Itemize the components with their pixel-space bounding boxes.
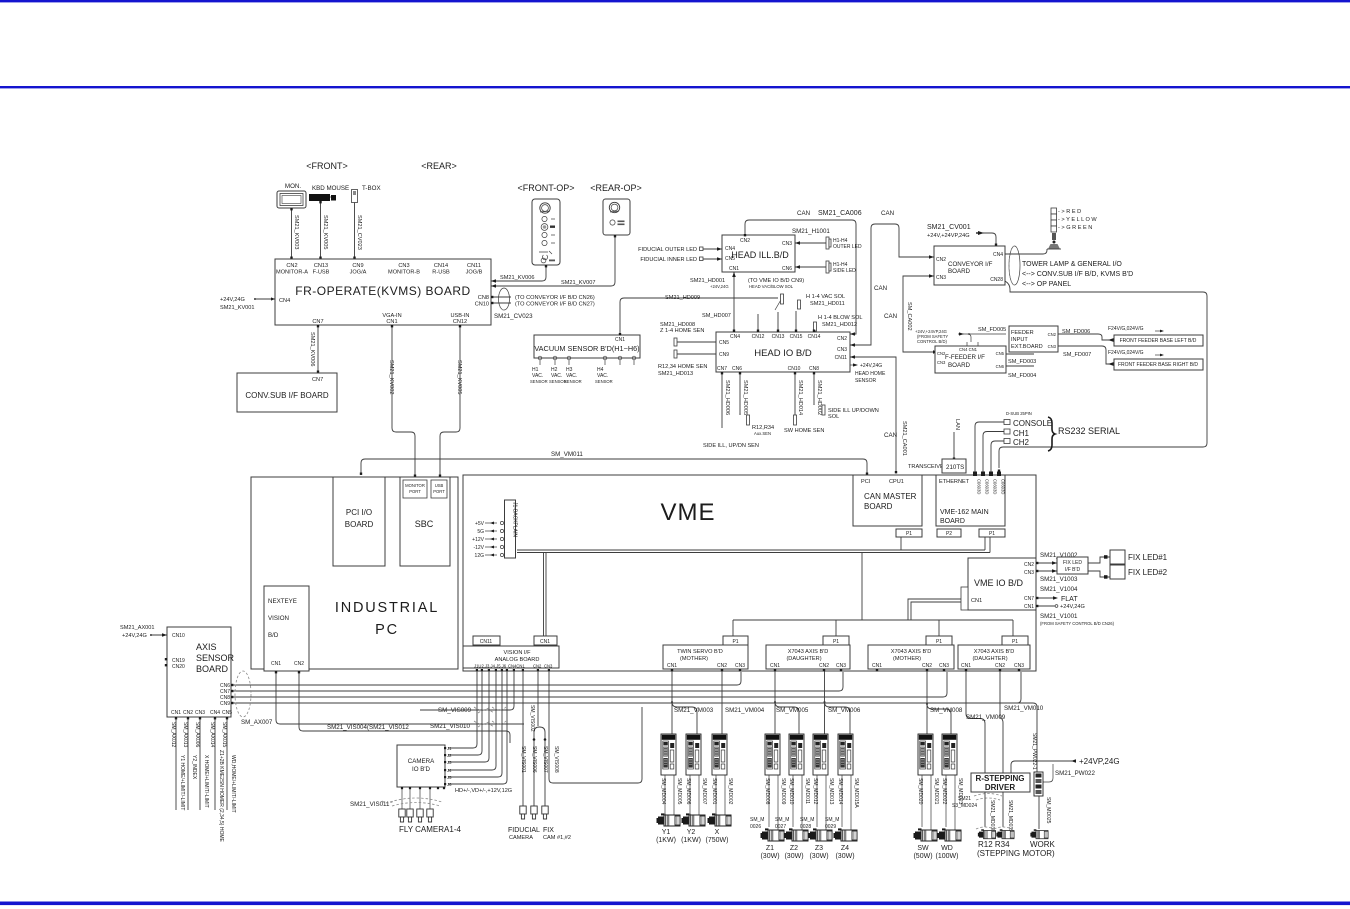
wire FRONT-OP to board (SM21_KV006) bbox=[491, 265, 546, 281]
wire conveyor CN3 down to F-FEEDER CN2 bbox=[903, 276, 938, 352]
svg-text:CN7: CN7 bbox=[312, 377, 323, 383]
svg-text:CN1: CN1 bbox=[386, 319, 397, 325]
svg-text:SENSOR: SENSOR bbox=[530, 379, 548, 384]
svg-text:CN2: CN2 bbox=[294, 661, 304, 667]
svg-text:PORT: PORT bbox=[433, 489, 445, 494]
svg-text:CN5: CN5 bbox=[222, 710, 232, 716]
svg-text:CAN: CAN bbox=[884, 432, 897, 439]
vision pins bottom bbox=[476, 669, 550, 671]
svg-text:SM21_HD013: SM21_HD013 bbox=[658, 371, 693, 377]
svg-text:SENSOR: SENSOR bbox=[564, 379, 582, 384]
panel REAR-OP bbox=[603, 199, 630, 235]
svg-text:SM_FD006: SM_FD006 bbox=[1062, 329, 1090, 335]
svg-text:(30W): (30W) bbox=[784, 853, 803, 860]
svg-text:SM_MD022: SM_MD022 bbox=[941, 778, 947, 805]
svg-text:J4: J4 bbox=[447, 768, 452, 773]
svg-text:+24V,24G: +24V,24G bbox=[220, 297, 245, 303]
connector work vertical bbox=[1034, 772, 1043, 796]
svg-text:CAM #1,#2: CAM #1,#2 bbox=[543, 835, 571, 841]
svg-text:SM21_HD006: SM21_HD006 bbox=[724, 380, 730, 415]
svg-text:SM_VIS009: SM_VIS009 bbox=[438, 707, 472, 714]
svg-text:SM_MD005: SM_MD005 bbox=[676, 778, 682, 805]
svg-text:SM_MD013: SM_MD013 bbox=[828, 778, 834, 805]
svg-text:CN10: CN10 bbox=[172, 633, 185, 639]
svg-text:BOARD: BOARD bbox=[948, 362, 971, 369]
svg-text:INPUT: INPUT bbox=[1011, 337, 1028, 343]
svg-text:FRONT FEEDER BASE RIGHT B/D: FRONT FEEDER BASE RIGHT B/D bbox=[1118, 362, 1198, 368]
wire X7043d1 CN1 to Z1 bbox=[774, 672, 776, 735]
bundle ellipse fly bbox=[390, 798, 442, 806]
svg-text:0028: 0028 bbox=[800, 824, 811, 830]
connector R12,34 home bbox=[674, 350, 677, 358]
connectors ethernet x4 bbox=[973, 472, 977, 477]
board VME-162 MAIN bbox=[936, 475, 1005, 526]
connector H1-H4 SIDE LED bbox=[826, 261, 829, 273]
svg-text:J1U2,J3,J4,J5,J6: J1U2,J3,J4,J5,J6 bbox=[474, 664, 507, 669]
riser bus down to P1 row bbox=[861, 553, 863, 621]
svg-text:P1: P1 bbox=[936, 639, 942, 645]
svg-text:SM_CA002: SM_CA002 bbox=[906, 302, 912, 331]
svg-text:SM21_KV007: SM21_KV007 bbox=[561, 280, 596, 286]
port MONITOR PORT bbox=[403, 480, 427, 498]
svg-text:(30W): (30W) bbox=[809, 853, 828, 860]
wire F-FEEDER top pins bbox=[967, 342, 978, 346]
motor SW bbox=[914, 828, 938, 841]
svg-text:CN4: CN4 bbox=[993, 252, 1003, 258]
svg-text:<--> OP PANEL: <--> OP PANEL bbox=[1022, 281, 1071, 288]
svg-text:CN11: CN11 bbox=[467, 263, 481, 269]
board FR-OPERATE(KVMS) bbox=[275, 259, 491, 325]
svg-text:F-USB: F-USB bbox=[313, 270, 330, 276]
svg-text:CN3: CN3 bbox=[195, 710, 205, 716]
board R-STEPPING DRIVER bbox=[971, 773, 1030, 792]
svg-text:<REAR-OP>: <REAR-OP> bbox=[590, 183, 642, 193]
svg-text:X7043 AXIS B'D: X7043 AXIS B'D bbox=[974, 649, 1015, 655]
driver Z1 bbox=[765, 734, 780, 775]
svg-text:CN2: CN2 bbox=[937, 351, 946, 356]
svg-text:CN2: CN2 bbox=[183, 710, 193, 716]
svg-text:SM_FD003: SM_FD003 bbox=[1008, 359, 1036, 365]
svg-text:NEXTEYE: NEXTEYE bbox=[268, 598, 297, 605]
backplane J1-BACKPLAIN bbox=[505, 500, 516, 558]
board TWIN SERVO (MOTHER) bbox=[663, 645, 748, 669]
svg-text:VME IO B/D: VME IO B/D bbox=[974, 578, 1024, 588]
svg-text:SM_HD007: SM_HD007 bbox=[702, 313, 731, 319]
connector CN11 box bbox=[473, 636, 500, 645]
connector P2 bbox=[937, 529, 961, 537]
svg-text:(MOTHER): (MOTHER) bbox=[893, 656, 921, 662]
svg-text:X HOME/+LIMIT/-LIMIT: X HOME/+LIMIT/-LIMIT bbox=[203, 755, 209, 808]
svg-text:CN6: CN6 bbox=[782, 266, 792, 272]
svg-text:SM_FD007: SM_FD007 bbox=[1063, 352, 1091, 358]
wire KBD to CN13 bbox=[320, 201, 322, 259]
wire CN8 to conveyor bbox=[491, 296, 511, 298]
wire branch to WD drv bbox=[927, 704, 951, 734]
svg-text:CN7: CN7 bbox=[1024, 596, 1034, 602]
connector H1-4 BLOW SOL bbox=[814, 322, 817, 331]
svg-text:SM21_CV023: SM21_CV023 bbox=[356, 215, 362, 250]
driver Z3 bbox=[813, 734, 828, 775]
label +24V,24G HEAD HOME SENSOR bbox=[850, 364, 854, 366]
svg-text:SOL: SOL bbox=[828, 414, 839, 420]
svg-text:CN4: CN4 bbox=[210, 710, 220, 716]
svg-text:J6: J6 bbox=[447, 782, 452, 787]
svg-text:INDUSTRIAL: INDUSTRIAL bbox=[335, 600, 439, 616]
wire CN10 to conveyor bbox=[491, 302, 511, 304]
svg-text:CN3: CN3 bbox=[936, 275, 946, 281]
svg-text:CN14: CN14 bbox=[808, 334, 821, 340]
svg-text:CN15: CN15 bbox=[790, 334, 803, 340]
svg-text:SM_MD014: SM_MD014 bbox=[837, 778, 843, 805]
svg-text:F-FEEDER I/F: F-FEEDER I/F bbox=[945, 354, 985, 361]
svg-text:SM21: SM21 bbox=[958, 796, 971, 802]
motor R12 bbox=[978, 829, 996, 838]
wire VGA-IN down to MONITOR PORT bbox=[392, 325, 415, 477]
wire branch to Z2 bbox=[775, 702, 799, 734]
svg-text:H 1-4 BLOW SOL: H 1-4 BLOW SOL bbox=[818, 315, 862, 321]
svg-text:P1: P1 bbox=[1012, 639, 1018, 645]
bundle ellipses r-stepping bbox=[974, 794, 1002, 801]
board VACUUM SENSOR B'D bbox=[534, 335, 640, 358]
svg-text:SW HOME SEN: SW HOME SEN bbox=[784, 428, 824, 434]
wires fix cams down bbox=[534, 740, 545, 806]
brace RS232 bbox=[1048, 417, 1055, 451]
svg-text:SM21_HD012: SM21_HD012 bbox=[822, 322, 857, 328]
svg-text:CN6: CN6 bbox=[996, 364, 1005, 369]
svg-text:+24VP,24G: +24VP,24G bbox=[1079, 757, 1120, 766]
svg-text:JOG/A: JOG/A bbox=[350, 270, 367, 276]
svg-text:CONTROL B/D): CONTROL B/D) bbox=[917, 339, 947, 344]
svg-text:Z1: Z1 bbox=[766, 845, 774, 852]
svg-text:CN4CN1: CN4CN1 bbox=[508, 664, 525, 669]
svg-text:CAMERA: CAMERA bbox=[408, 758, 435, 765]
motor WORK bbox=[1030, 829, 1048, 838]
board VME IO B/D bbox=[968, 558, 1036, 610]
svg-text:-12V: -12V bbox=[473, 545, 484, 551]
bus P1 row horizontal bbox=[733, 619, 1013, 621]
svg-text:SM21_VM010: SM21_VM010 bbox=[1004, 705, 1044, 712]
pc INDUSTRIAL PC box bbox=[251, 477, 458, 669]
svg-text:CN3: CN3 bbox=[735, 663, 745, 669]
wire CN6 to side LED conn bbox=[795, 266, 826, 268]
svg-text:CAMERA: CAMERA bbox=[509, 835, 533, 841]
svg-text:P1: P1 bbox=[906, 531, 912, 537]
svg-text:SM_VM008: SM_VM008 bbox=[930, 707, 963, 714]
rack VME outer box bbox=[463, 475, 1036, 671]
svg-text:CN3: CN3 bbox=[939, 663, 949, 669]
wire X7043d1 CN2 to Z3 bbox=[824, 672, 826, 735]
svg-text:FIDUCIAL INNER LED: FIDUCIAL INNER LED bbox=[640, 257, 697, 263]
board FIX LED I/F B'D bbox=[1057, 557, 1088, 574]
svg-text:C0603D: C0603D bbox=[985, 479, 990, 494]
svg-text:AXIS: AXIS bbox=[196, 642, 217, 652]
svg-text:VACUUM SENSOR B'D(H1~H6): VACUUM SENSOR B'D(H1~H6) bbox=[534, 344, 639, 353]
svg-text:0026: 0026 bbox=[750, 824, 761, 830]
svg-text:SM_VIS001: SM_VIS001 bbox=[520, 746, 526, 773]
svg-text:LAN: LAN bbox=[954, 419, 960, 430]
svg-text:J1: J1 bbox=[447, 746, 452, 751]
wire CAN loop HEAD ILL CN2 to HEAD IO CN2 bbox=[745, 220, 856, 334]
svg-text:MONITOR-A: MONITOR-A bbox=[276, 270, 308, 276]
motor Y1 bbox=[657, 813, 681, 826]
vacuum sensor pins bbox=[538, 356, 636, 365]
svg-text:<FRONT>: <FRONT> bbox=[306, 161, 348, 171]
svg-text:SM_MD001: SM_MD001 bbox=[711, 778, 717, 805]
page frame top blue line bbox=[0, 0, 1350, 2]
wire branch to Z4 bbox=[825, 702, 851, 734]
connector SIDE ILL sol bbox=[822, 405, 825, 415]
svg-text:FEEDER: FEEDER bbox=[1011, 330, 1034, 336]
svg-text:0027: 0027 bbox=[775, 824, 786, 830]
board HEAD ILL.B/D bbox=[722, 235, 795, 272]
connector H1-4 VAC SOL bbox=[798, 300, 801, 309]
svg-text:CN1: CN1 bbox=[770, 663, 780, 669]
panel FRONT-OP bbox=[532, 199, 560, 265]
svg-text:SM21_HD009: SM21_HD009 bbox=[665, 295, 700, 301]
svg-text:SW: SW bbox=[917, 845, 929, 852]
svg-text:PCI I/O: PCI I/O bbox=[346, 508, 372, 517]
svg-text:SIDE ILL, UP/DN SEN: SIDE ILL, UP/DN SEN bbox=[703, 443, 759, 449]
svg-text:SM_M: SM_M bbox=[800, 817, 814, 823]
svg-text:+24V,24G: +24V,24G bbox=[122, 633, 147, 639]
wire CN7 down SM21_HD006 bbox=[721, 372, 723, 428]
svg-text:Z 1-4 HOME SEN: Z 1-4 HOME SEN bbox=[660, 328, 704, 334]
camera right pins J1-J6 bbox=[444, 746, 452, 787]
wire USB-IN down to USB PORT bbox=[440, 325, 460, 477]
board AXIS SENSOR bbox=[167, 627, 231, 717]
wire CONSOLE to ethernet bbox=[975, 422, 1004, 472]
driver Y1 bbox=[661, 734, 676, 775]
svg-text:SM_MD011: SM_MD011 bbox=[804, 778, 810, 804]
svg-text:SM21_PW022: SM21_PW022 bbox=[1055, 770, 1095, 777]
riser P1 vme162 to bus bbox=[985, 537, 990, 553]
svg-text:JOG/B: JOG/B bbox=[466, 270, 483, 276]
svg-text:SM_FD004: SM_FD004 bbox=[1008, 373, 1036, 379]
wire work down bbox=[1038, 796, 1040, 829]
svg-text:TWIN SERVO B'D: TWIN SERVO B'D bbox=[677, 649, 723, 655]
svg-text:CN3: CN3 bbox=[836, 663, 846, 669]
svg-text:SM_FD005: SM_FD005 bbox=[978, 327, 1006, 333]
wire CN3 to fix led bd bbox=[1036, 570, 1057, 572]
svg-text:ETHERNET: ETHERNET bbox=[939, 479, 970, 485]
motor X bbox=[708, 813, 732, 826]
wire NEXTEYE CN1 right bbox=[276, 671, 524, 724]
svg-text:Y1: Y1 bbox=[662, 829, 671, 836]
motor Y2 bbox=[682, 813, 706, 826]
svg-text:CN10: CN10 bbox=[788, 366, 801, 372]
wire CN10 down SM21_HD014 bbox=[794, 372, 796, 415]
connector CN1 box bbox=[534, 636, 557, 645]
svg-text:CN5: CN5 bbox=[725, 256, 735, 262]
svg-text:CN28: CN28 bbox=[990, 277, 1003, 283]
svg-text:SM21_VIS010: SM21_VIS010 bbox=[430, 723, 470, 730]
wire HEAD ILL CN1 to HEAD IO CN4 bbox=[733, 272, 735, 332]
wire riser to work connector bbox=[1017, 703, 1037, 772]
wire NEXTEYE CN2 right bbox=[299, 671, 510, 743]
wire EXT CN3 to front feeder right bbox=[1058, 346, 1114, 364]
svg-text:(DAUGHTER): (DAUGHTER) bbox=[786, 656, 821, 662]
board CAMERA IO B'D bbox=[397, 745, 445, 787]
wire CAN trunk loop2 conveyor bbox=[850, 224, 934, 345]
svg-text:HEAD VAC/BLOW SOL: HEAD VAC/BLOW SOL bbox=[749, 284, 794, 289]
svg-text:CN4: CN4 bbox=[725, 246, 735, 252]
svg-text:SIDE LED: SIDE LED bbox=[833, 268, 856, 274]
svg-text:+12V: +12V bbox=[472, 537, 484, 543]
svg-text:CN11: CN11 bbox=[480, 639, 493, 645]
board CONV.SUB I/F bbox=[237, 373, 337, 412]
wire CN13 up to sol bbox=[777, 312, 779, 332]
backplane supply pins bbox=[472, 521, 503, 559]
svg-text:X7043 AXIS B'D: X7043 AXIS B'D bbox=[891, 649, 932, 655]
svg-text:PCI: PCI bbox=[861, 479, 871, 485]
svg-text:RS232 SERIAL: RS232 SERIAL bbox=[1058, 426, 1120, 436]
bundle ellipses motors r bbox=[976, 827, 1012, 829]
svg-text:(DAUGHTER): (DAUGHTER) bbox=[972, 656, 1007, 662]
svg-text:(TO CONVEYOR I/F B/D CN26): (TO CONVEYOR I/F B/D CN26) bbox=[515, 295, 595, 301]
wire REAR-OP to board (SM21_KV007) bbox=[491, 235, 615, 286]
svg-text:(FROM SAFETY CONTROL B/D CN26): (FROM SAFETY CONTROL B/D CN26) bbox=[1040, 621, 1115, 626]
connector CH2 bbox=[1004, 439, 1010, 444]
svg-text:PORT: PORT bbox=[409, 489, 421, 494]
svg-text:HD+/-,VD+/-,+12V,12G: HD+/-,VD+/-,+12V,12G bbox=[455, 788, 512, 794]
board HEAD IO B/D bbox=[716, 332, 850, 372]
svg-text:<--> CONV.SUB I/F B/D, KVMS B': <--> CONV.SUB I/F B/D, KVMS B'D bbox=[1022, 271, 1133, 278]
svg-text:SM21_H1001: SM21_H1001 bbox=[792, 228, 830, 235]
svg-text:SM21_HD002: SM21_HD002 bbox=[816, 380, 822, 415]
wire b4 CN2 to SW drv bbox=[926, 672, 928, 735]
svg-text:WD,HOME/+LIMIT/-LIMIT: WD,HOME/+LIMIT/-LIMIT bbox=[230, 755, 236, 813]
svg-text:SM_VM006: SM_VM006 bbox=[828, 707, 861, 714]
svg-text:VME: VME bbox=[660, 499, 715, 526]
box 210TS bbox=[942, 459, 966, 473]
svg-text:SM_MD009: SM_MD009 bbox=[780, 778, 786, 805]
twist marks vis010 bbox=[474, 721, 506, 727]
svg-text:SM_MD021: SM_MD021 bbox=[933, 778, 939, 805]
svg-text:C0603D: C0603D bbox=[993, 479, 998, 494]
svg-text:SM21_KV005: SM21_KV005 bbox=[322, 215, 328, 250]
board SBC bbox=[400, 477, 450, 566]
svg-text:SM21_KV002: SM21_KV002 bbox=[388, 360, 394, 395]
svg-text:H 1-4 VAC SOL: H 1-4 VAC SOL bbox=[806, 294, 845, 300]
svg-text:J5: J5 bbox=[447, 775, 452, 780]
svg-text:SENSOR: SENSOR bbox=[196, 653, 235, 663]
svg-text:SM21_VM003: SM21_VM003 bbox=[674, 707, 714, 714]
wire F-FEEDER CN5 SM_FD003 bbox=[1006, 353, 1034, 355]
svg-text:SM_MD020: SM_MD020 bbox=[917, 778, 923, 805]
wire TWIN CN1 to Y1 drv bbox=[671, 672, 673, 735]
svg-text:VISION: VISION bbox=[268, 615, 289, 622]
svg-text:DRIVER: DRIVER bbox=[985, 783, 1015, 792]
svg-text:J3: J3 bbox=[447, 760, 452, 765]
svg-text:CN4: CN4 bbox=[279, 298, 290, 304]
svg-text:CN2: CN2 bbox=[995, 663, 1005, 669]
svg-text:CN1: CN1 bbox=[540, 639, 550, 645]
svg-text:Z4: Z4 bbox=[841, 845, 849, 852]
motor Z4 bbox=[834, 828, 858, 841]
svg-text:SM_MD006: SM_MD006 bbox=[685, 778, 691, 805]
svg-text:SM_VIS007: SM_VIS007 bbox=[542, 746, 548, 773]
cable bundle ellipse bbox=[499, 288, 510, 310]
svg-text:CAN: CAN bbox=[884, 313, 897, 320]
wire +24V to conveyor top bbox=[976, 233, 996, 246]
svg-text:SM_AX012: SM_AX012 bbox=[170, 722, 176, 748]
svg-text:(MOTHER): (MOTHER) bbox=[680, 656, 708, 662]
svg-text:CN13: CN13 bbox=[314, 263, 328, 269]
svg-text:KBD MOUSE: KBD MOUSE bbox=[312, 185, 349, 192]
wires vision J1-J6 to camera bbox=[448, 671, 477, 748]
driver Z2 bbox=[789, 734, 804, 775]
svg-text:CN10: CN10 bbox=[475, 302, 489, 308]
svg-text:CN3: CN3 bbox=[937, 360, 946, 365]
wire EXT CN2 to front feeder left bbox=[1058, 334, 1114, 340]
board FEEDER INPUT EXT.BOARD bbox=[1009, 326, 1058, 352]
connector R12,R34 aux bbox=[747, 415, 750, 425]
motor Z2 bbox=[785, 828, 809, 841]
svg-text:X: X bbox=[715, 829, 720, 836]
svg-text:- > R E D: - > R E D bbox=[1058, 209, 1081, 215]
svg-text:CAN: CAN bbox=[881, 210, 894, 217]
svg-text:SM_MD025: SM_MD025 bbox=[1045, 797, 1051, 824]
svg-text:SM21_VIS004(SM21_VIS012: SM21_VIS004(SM21_VIS012 bbox=[327, 724, 409, 731]
svg-text:CN1: CN1 bbox=[171, 710, 181, 716]
svg-text:CH1: CH1 bbox=[1013, 429, 1030, 438]
svg-text:CPU1: CPU1 bbox=[889, 479, 904, 485]
wire CN12 up bbox=[757, 314, 759, 332]
svg-text:SM_MD010: SM_MD010 bbox=[788, 778, 794, 805]
driver X bbox=[712, 734, 727, 775]
wire CN7 down to CONV.SUB bbox=[317, 325, 319, 373]
svg-text:SM_AX006: SM_AX006 bbox=[194, 722, 200, 748]
svg-text:CN1: CN1 bbox=[971, 598, 982, 604]
svg-text:VISION I/F: VISION I/F bbox=[503, 650, 531, 656]
svg-text:SM21_VM004: SM21_VM004 bbox=[725, 707, 765, 714]
driver SW bbox=[918, 734, 933, 775]
wire vision CN3 to right riser bbox=[549, 671, 642, 783]
svg-text:CN2: CN2 bbox=[922, 663, 932, 669]
svg-text:J1-BACKPLAIN: J1-BACKPLAIN bbox=[512, 502, 518, 537]
svg-text:PC: PC bbox=[375, 622, 399, 638]
svg-text:S3_MD024: S3_MD024 bbox=[952, 803, 977, 809]
svg-text:FLY CAMERA1-4: FLY CAMERA1-4 bbox=[399, 825, 461, 834]
board CONVEYOR I/F bbox=[934, 246, 1005, 285]
svg-text:BOARD: BOARD bbox=[948, 268, 971, 275]
svg-text:SBC: SBC bbox=[415, 519, 434, 529]
camera bottom pins bbox=[401, 787, 445, 789]
wire F-FEEDER CN6 SM_FD004 bbox=[1006, 365, 1034, 367]
svg-text:SM_MD007: SM_MD007 bbox=[701, 778, 707, 805]
svg-text:P2: P2 bbox=[946, 531, 952, 537]
svg-text:SM21_HD005: SM21_HD005 bbox=[742, 380, 748, 415]
driver WD bbox=[942, 734, 957, 775]
svg-text:SM21_V1004: SM21_V1004 bbox=[1040, 586, 1078, 593]
svg-text:FIDUCIAL: FIDUCIAL bbox=[508, 827, 540, 834]
svg-text:SM21_V1003: SM21_V1003 bbox=[1040, 576, 1078, 583]
svg-text:SM21_CA001: SM21_CA001 bbox=[901, 421, 907, 456]
driver Z4 bbox=[838, 734, 853, 775]
svg-text:CN4 CN1: CN4 CN1 bbox=[959, 347, 978, 352]
svg-text:SM_MD012: SM_MD012 bbox=[812, 778, 818, 805]
svg-text:T-BOX: T-BOX bbox=[362, 185, 381, 192]
svg-text:SM_M: SM_M bbox=[825, 817, 839, 823]
junction dots bbox=[671, 701, 673, 703]
connector CH1 bbox=[1004, 429, 1010, 434]
wires r12 r34 down bbox=[985, 792, 1003, 827]
svg-text:CN2: CN2 bbox=[1048, 332, 1057, 337]
svg-text:SM21_KV001: SM21_KV001 bbox=[220, 305, 255, 311]
svg-text:CN7: CN7 bbox=[717, 366, 727, 372]
svg-text:MONITOR-B: MONITOR-B bbox=[388, 270, 420, 276]
sol connector slanted bbox=[775, 298, 782, 310]
